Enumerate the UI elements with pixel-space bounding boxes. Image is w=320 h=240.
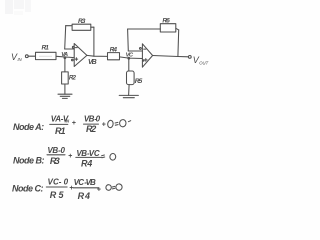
- svg-text:VB-0: VB-0: [47, 146, 65, 155]
- svg-text:VC: VC: [126, 52, 134, 58]
- svg-text:VB: VB: [88, 59, 97, 66]
- svg-text:Node A:: Node A:: [13, 122, 44, 132]
- svg-text:VC-0: VC-0: [48, 177, 69, 186]
- svg-text:OUT: OUT: [199, 61, 208, 66]
- svg-text:R5: R5: [50, 190, 65, 200]
- svg-text:Node C:: Node C:: [12, 183, 44, 193]
- svg-text:R4: R4: [81, 159, 92, 169]
- svg-text:R3: R3: [50, 156, 60, 166]
- svg-text:VB-0: VB-0: [84, 114, 101, 123]
- svg-text:VA: VA: [61, 52, 68, 58]
- svg-text:Node B:: Node B:: [13, 156, 45, 166]
- svg-text:R5: R5: [135, 78, 143, 85]
- svg-text:VB-VC: VB-VC: [76, 149, 100, 158]
- svg-text:R2: R2: [86, 124, 96, 134]
- svg-text:+: +: [68, 153, 72, 160]
- svg-text:R1: R1: [55, 126, 66, 136]
- svg-text:+: +: [97, 186, 101, 193]
- svg-text:R2: R2: [69, 75, 77, 82]
- svg-text:IN: IN: [18, 57, 23, 62]
- svg-text:R4: R4: [78, 191, 90, 201]
- svg-text:+: +: [72, 120, 76, 127]
- svg-text:VC-VB: VC-VB: [74, 178, 96, 187]
- svg-text:+: +: [102, 121, 106, 128]
- svg-text:IN: IN: [65, 119, 70, 124]
- svg-text:R1: R1: [42, 45, 50, 52]
